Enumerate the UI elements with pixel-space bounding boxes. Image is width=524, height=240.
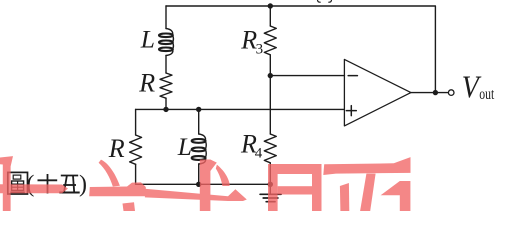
svg-text:L: L [140,24,155,53]
svg-text:R: R [108,134,125,163]
svg-text:L: L [177,132,192,161]
svg-text:R: R [138,69,155,98]
svg-text:out: out [479,86,495,103]
svg-text:3: 3 [256,42,264,58]
svg-text:): ) [79,171,87,197]
svg-text:4: 4 [255,145,263,161]
